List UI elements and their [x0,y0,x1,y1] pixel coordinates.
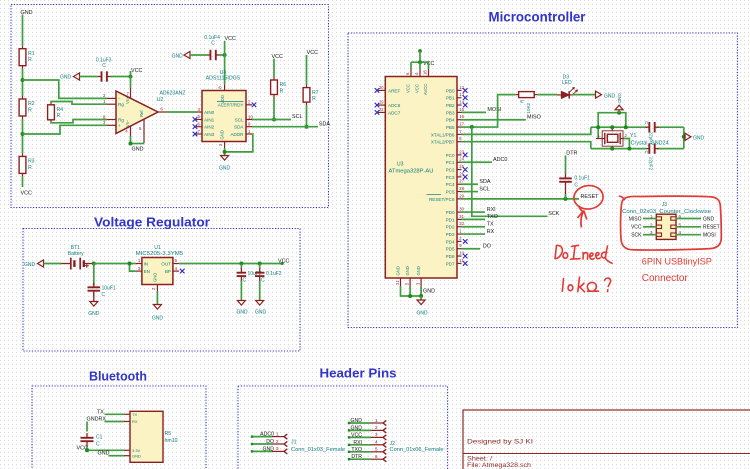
ground left of 0.1uF4 [184,51,190,58]
wire PC4 SDA [462,183,479,185]
junction node B [21,132,25,136]
junction 10uF2 [239,262,243,266]
svg-text:Vs+: Vs+ [125,96,130,104]
svg-text:10: 10 [248,114,253,119]
junction U4 GND [223,150,227,154]
junction crystal GND [682,135,686,139]
svg-text:GND: GND [24,262,36,268]
svg-text:DTR: DTR [351,454,362,460]
svg-text:DTR: DTR [566,151,577,157]
annotation red arrow [578,211,587,228]
junction 0.1uF2 [258,262,262,266]
capacitor C4 0.1uF [207,50,220,60]
no-connect U3 PB2 [463,103,468,108]
connector J1 pin 1 socket [284,434,287,439]
MCU U3 left pin stubs [378,90,385,112]
svg-text:GND: GND [703,216,715,222]
junction GND bus 2 [419,294,423,298]
svg-text:VCC: VCC [406,84,411,93]
connector J2 pin 2 socket [383,428,386,433]
wire VCC down to U4 [224,41,226,85]
junction U4 VDD [223,53,227,57]
connector J3 wires [643,219,701,235]
svg-text:TX: TX [132,412,137,417]
no-connect U4 AIN1 [193,117,198,122]
junction GND bus 1 [408,294,412,298]
no-connect U3 PD6 [463,254,468,259]
frame microcontroller section box [348,33,738,328]
svg-text:3: 3 [276,446,279,451]
wire C1 to VCC [86,446,88,450]
regulator U1 body [142,258,173,285]
wire LED to GND [573,94,597,96]
svg-text:GND: GND [172,54,184,60]
wire PC1 ADC0 [462,161,493,163]
wire EN loop [130,264,136,272]
svg-text:GND: GND [693,136,705,142]
wire end dot VCC [281,262,284,265]
wire R6 to SCL [273,98,275,120]
svg-text:PB3: PB3 [446,110,455,115]
wire VCC bt [85,449,124,451]
resistor R4 [48,102,64,123]
capacitor C 22pF2 [646,143,659,153]
svg-text:R4: R4 [57,107,64,113]
svg-text:TXO: TXO [351,447,362,453]
svg-text:PD6: PD6 [446,254,455,259]
svg-text:3.3V: 3.3V [132,448,141,453]
battery BT1 [62,258,94,270]
svg-text:XTAL1/PB6: XTAL1/PB6 [431,132,455,137]
svg-text:PD0: PD0 [446,210,455,215]
wire U4 GND pin down [224,148,226,156]
wire GND to C3 [80,76,98,78]
svg-text:PB4: PB4 [446,118,455,123]
svg-text:6PIN USBtinyISP: 6PIN USBtinyISP [642,257,712,268]
wire C3 to VCC junction [111,76,131,78]
svg-text:20: 20 [379,85,384,90]
MCU U3 top pin stubs [411,69,429,77]
wire VCC to R7 [306,55,308,85]
wire crystal bottom rail right [657,148,683,150]
svg-text:BT1: BT1 [71,245,80,251]
wire C 0.1uF2 to GND [259,281,261,301]
wire PD5 DO [462,248,481,250]
wire GND bt down [86,422,88,432]
wire PD2 TX [462,226,486,228]
svg-text:RESET: RESET [703,225,720,231]
resistor R3 [19,153,35,176]
junction shield right [624,125,628,129]
svg-text:R: R [312,96,316,102]
wire GND bus to arrow [420,296,422,300]
wire R7 to SDA [306,105,308,127]
svg-text:Bluetooth: Bluetooth [89,369,147,384]
ground below U1 [153,305,161,310]
annotation red circle around RESET [573,184,604,212]
svg-text:10uF1: 10uF1 [102,285,116,291]
svg-text:21: 21 [395,280,400,285]
svg-text:C: C [102,63,106,69]
capacitor C 0.1uF2 [255,268,265,281]
frame voltage regulator section box [23,229,300,352]
svg-text:LED: LED [562,80,572,86]
svg-text:PC5: PC5 [446,189,455,194]
svg-text:30: 30 [459,206,464,211]
annotation handwriting Do I need [555,245,612,263]
ground left of battery [38,260,44,267]
svg-text:Conn_01x06_Female: Conn_01x06_Female [390,447,444,453]
wire RX bt [105,421,125,423]
connector J2 pin 1 socket [383,420,386,425]
ground below 10uF1 [90,302,98,307]
wire PB3 MOSI [462,111,487,113]
no-connect U3 PC0 [463,153,468,158]
no-connect AREF [375,88,380,93]
wire DTR down [565,156,567,174]
wire R5 to LED [537,94,557,96]
capacitor C 10uF2 [237,268,247,281]
svg-text:PC1: PC1 [446,160,455,165]
wire shield loop [598,113,626,139]
ground below U4 [221,156,229,161]
wire RESET [462,198,580,200]
wire Ref pin to GND node [131,143,145,145]
svg-text:VCC: VCC [21,191,32,197]
svg-text:VCC: VCC [278,258,289,264]
svg-text:Y1: Y1 [630,133,636,139]
wire GND bt [109,455,125,457]
svg-text:ADDR: ADDR [230,132,244,137]
wire PB4 MISO [462,119,526,121]
svg-text:GND: GND [132,453,141,458]
svg-text:AIN3: AIN3 [204,132,215,137]
wire VCC to R6 [273,59,275,78]
resistor R6 [271,77,287,98]
wire C stub green [565,194,567,199]
wire U1 GND down [156,291,158,305]
wire AVCC pin drop [428,62,430,69]
module hm10 pin stubs [124,414,130,455]
svg-text:AREF: AREF [388,88,400,93]
IC U4 body [202,91,246,142]
junction crystal shield top [610,125,614,129]
svg-text:Rg: Rg [118,102,124,107]
wire down to C 0.1uF2 [259,264,261,269]
wire U1 OUT to VCC [179,263,282,265]
junction SDA [305,125,309,129]
svg-text:PB1: PB1 [446,96,455,101]
svg-text:28: 28 [459,186,464,191]
wire GND to R1 [22,15,24,46]
svg-text:GND: GND [87,417,99,423]
svg-text:32: 32 [459,221,464,226]
wire crystal top rail left [591,126,647,128]
svg-text:Microcontroller: Microcontroller [489,10,587,25]
junction node A [21,78,25,82]
connector J2 pin 6 socket [383,457,386,462]
connector J2 pin 5 socket [383,449,386,454]
svg-text:SCK: SCK [631,233,642,239]
svg-text:SDA: SDA [319,122,330,128]
svg-text:Sheet: /: Sheet: / [467,457,492,463]
frame amplifier section box [11,5,329,208]
wire VCC rail to pins [411,61,429,63]
junction op-amp VCC [129,75,133,79]
wire GND bus mid [409,286,411,296]
annotation handwriting 10k ohm [562,277,610,292]
svg-text:PD3: PD3 [446,232,455,237]
svg-text:GND: GND [405,266,410,275]
no-connect U4 AIN3 [193,132,198,137]
svg-text:PC4: PC4 [446,182,455,187]
junction VCC rail [418,60,422,64]
svg-text:GND: GND [604,93,616,99]
annotation red box around J3 [620,196,722,250]
svg-text:22: 22 [379,107,384,112]
svg-text:AIN0: AIN0 [204,110,215,115]
svg-text:0.1uF2: 0.1uF2 [266,271,282,277]
no-connect U3 PD4 [463,239,468,244]
svg-text:Ref: Ref [139,110,144,117]
svg-text:GND: GND [262,446,274,452]
svg-text:TX: TX [97,409,104,415]
svg-text:VDD: VDD [220,95,225,104]
svg-text:U3: U3 [397,162,404,168]
wire crystal right vertical [683,127,685,148]
svg-text:PD2: PD2 [446,225,455,230]
svg-text:J2: J2 [390,441,396,447]
wire crystal top rail right [657,126,683,128]
svg-text:PB5: PB5 [446,125,455,130]
svg-text:AIN1: AIN1 [204,117,215,122]
svg-text:27: 27 [459,179,464,184]
svg-text:VCC: VCC [225,36,236,42]
connector J2 pin 3 socket [383,435,386,440]
wire battery junction down to C 10uF1 [93,264,95,286]
ground right of crystal [685,133,691,140]
svg-text:Header Pins: Header Pins [320,366,397,381]
wire crystal bottom rail left [591,148,647,150]
svg-text:1: 1 [276,431,279,436]
MCU U3 body [385,77,457,279]
svg-text:VCC: VCC [631,225,642,231]
junction PB5 SCK [470,125,474,129]
svg-text:GND: GND [219,166,231,172]
svg-text:AIN2: AIN2 [204,125,215,130]
no-connect U4 AIN2 [193,124,198,129]
svg-text:MOSI: MOSI [487,107,501,113]
wire node A to op-amp pin 2 [23,80,108,98]
capacitor C 0.1uF1 [559,174,572,187]
svg-text:1: 1 [375,418,378,423]
svg-text:RX: RX [132,419,138,424]
svg-text:GND: GND [152,316,164,322]
junction op-amp GND [129,142,133,146]
ground below 10uF2 [237,301,245,306]
connector J2 wires [349,423,371,459]
wire op-amp pin4 to GND [130,136,132,144]
svg-text:C: C [96,442,100,448]
svg-text:GND: GND [416,311,428,317]
svg-text:2: 2 [375,425,378,430]
ground right of LED [596,91,602,98]
junction shield gnd [617,111,621,115]
svg-text:PD1: PD1 [446,217,455,222]
junction VCC bt [85,448,89,452]
svg-text:−: − [118,96,121,101]
svg-text:TX: TX [487,222,494,228]
wire C 10uF1 to GND [93,293,95,302]
junction crystal pin2 [627,147,631,151]
wire VCC down to op-amp [130,71,132,88]
svg-text:hm10: hm10 [165,438,178,444]
svg-text:5: 5 [375,447,378,452]
svg-text:VCC: VCC [131,68,142,74]
svg-text:+: + [118,123,121,128]
svg-text:RXI: RXI [487,207,496,213]
svg-text:ADC0: ADC0 [493,157,507,163]
capacitor C3 0.1uF [98,71,111,81]
wire GND to battery [44,263,62,265]
wire SCK drop [472,127,548,216]
crystal Y1 [596,127,623,148]
junction RESET [564,197,568,201]
svg-text:R: R [57,113,61,119]
svg-text:PB0: PB0 [446,88,455,93]
capacitor C 10uF1 [88,283,101,296]
svg-text:PC2: PC2 [446,167,455,172]
svg-text:MISO: MISO [629,216,642,222]
svg-text:DO: DO [483,244,491,250]
svg-text:R: R [28,107,32,113]
svg-text:J3: J3 [662,202,668,208]
wire PD0 RXI [462,211,486,213]
svg-text:R1: R1 [28,51,35,57]
IC U4 ALERT overline [217,101,244,103]
ground below 0.1uF2 [256,301,264,306]
svg-text:31: 31 [459,214,464,219]
svg-text:R2: R2 [28,101,35,107]
svg-text:Voltage Regulator: Voltage Regulator [94,215,210,230]
wire PB5 to LED riser [462,95,516,127]
wire TX bt [105,413,125,415]
junction SCL [272,118,276,122]
svg-text:GND: GND [132,147,144,153]
svg-text:Connector: Connector [642,273,689,284]
svg-text:SCL: SCL [479,186,490,192]
svg-text:C: C [261,278,265,284]
worksheet title block frame [463,410,750,469]
svg-text:GND: GND [255,310,267,316]
LED D3 [557,87,578,99]
resistor R2 [19,96,35,119]
wire PD1 TXO [462,218,486,220]
svg-text:ATmega328P-AU: ATmega328P-AU [389,168,434,174]
svg-text:SCL: SCL [235,117,244,122]
resistor R7 [303,85,319,106]
svg-text:IN: IN [144,262,149,267]
no-connect U3 PB0 [463,88,468,93]
svg-text:U1: U1 [154,245,161,251]
regulator U1 pin stubs [136,264,179,292]
svg-text:PC3: PC3 [446,175,455,180]
MCU U3 bottom pin stubs [401,278,422,286]
svg-text:MISO: MISO [527,115,541,121]
no-connect ADC6 [375,103,380,108]
MCU U3 RESET overline [427,193,442,195]
svg-text:GND: GND [423,289,435,295]
wire C 0.1uF1 to RESET [565,187,567,199]
module R5 hm10 body [130,411,163,462]
svg-text:File: Atmega328.sch: File: Atmega328.sch [467,463,531,469]
resistor R5 10K [515,92,537,98]
wire crystal pin2 riser [623,139,629,149]
svg-text:17: 17 [459,121,464,126]
svg-text:6: 6 [375,454,378,459]
svg-text:24: 24 [459,157,464,162]
wire XTAL2 [462,142,591,149]
no-connect U3 PC2 [463,167,468,172]
svg-text:SCK: SCK [548,211,559,217]
svg-text:C: C [574,182,578,188]
connector J1 pin 3 socket [284,449,287,454]
wire R2 to R3 [22,119,24,153]
svg-text:C1: C1 [96,435,103,441]
svg-text:GND: GND [617,93,622,104]
wire op-amp out to U4 AIN0 [166,111,196,113]
svg-text:C: C [102,292,106,298]
capacitor C 22pF1 [646,122,659,132]
svg-text:29: 29 [459,193,464,198]
wire XTAL1 [462,127,591,134]
wire shield gnd stem [618,110,620,113]
wire C 10uF2 to GND [240,281,242,301]
svg-text:Designed by SJ KI: Designed by SJ KI [467,440,533,446]
wire VCC stem [419,51,421,62]
svg-text:SCL: SCL [292,114,303,120]
svg-text:GND: GND [98,451,110,457]
connector J1 pin 2 socket [284,441,287,446]
svg-text:22pF2: 22pF2 [649,157,654,170]
wire R3 to VCC [22,176,24,187]
svg-text:GND: GND [350,425,362,431]
svg-text:SDA: SDA [479,179,490,185]
no-connect ADC7 [375,110,380,115]
svg-text:PC0: PC0 [446,153,455,158]
svg-text:GND: GND [416,266,421,275]
connector J3 body [656,214,676,239]
svg-text:GND: GND [396,266,401,275]
no-connect U1 BP [180,269,185,274]
connector J3 pin pads [656,217,676,237]
wire node B to op-amp pin 3 [23,125,108,134]
capacitor C1 [81,433,94,446]
svg-text:ADC7: ADC7 [388,110,401,115]
svg-text:R5: R5 [165,431,172,437]
svg-text:18: 18 [423,70,428,75]
svg-text:Conn_01x03_Female: Conn_01x03_Female [291,447,345,453]
wire U4 SCL to label [252,119,291,121]
svg-text:10K2: 10K2 [526,102,531,113]
svg-text:R: R [280,88,284,94]
svg-text:R3: R3 [28,159,35,165]
svg-text:PD7: PD7 [446,261,455,266]
svg-text:R: R [28,165,32,171]
wire GND bus [401,286,422,296]
svg-text:Vs−: Vs− [125,119,130,127]
svg-text:PD4: PD4 [446,239,455,244]
